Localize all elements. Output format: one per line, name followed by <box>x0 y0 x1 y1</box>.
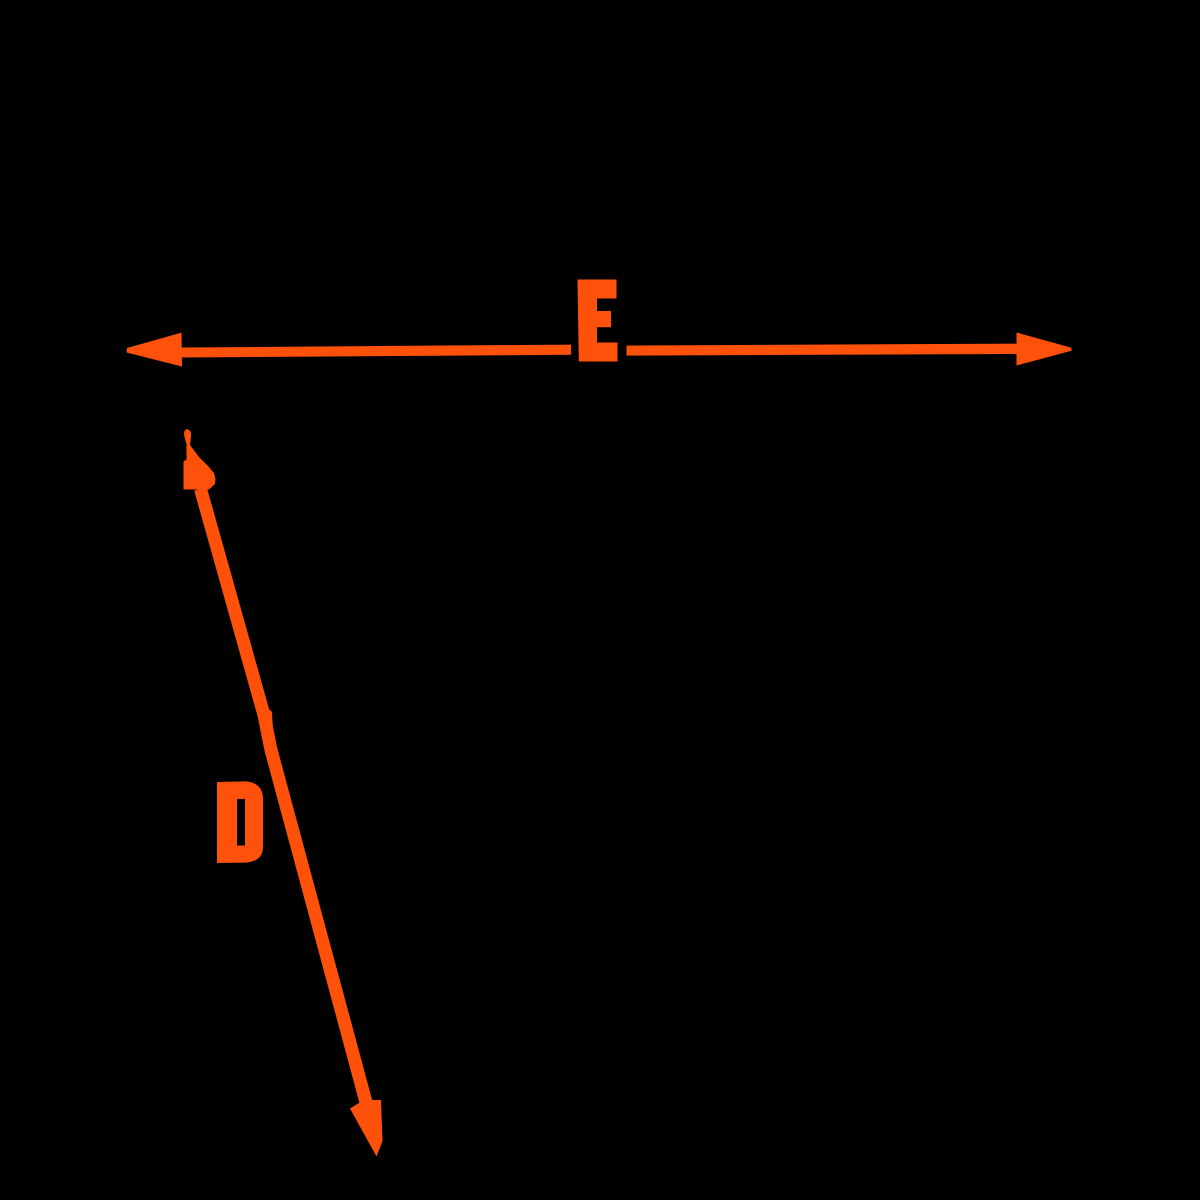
line E left arrowhead <box>127 333 182 367</box>
line E right arrowhead <box>1017 333 1072 366</box>
label D <box>217 781 263 863</box>
line E right shaft segment <box>627 344 1019 356</box>
line E left shaft segment <box>180 345 571 358</box>
line D shaft <box>201 489 367 1104</box>
line D bottom arrowhead tip notch <box>368 1148 375 1157</box>
line D bottom arrowhead <box>350 1100 383 1157</box>
line D shaft overlap bump at kink <box>263 703 274 757</box>
label E <box>578 280 618 362</box>
line D top arrowhead <box>184 429 216 490</box>
